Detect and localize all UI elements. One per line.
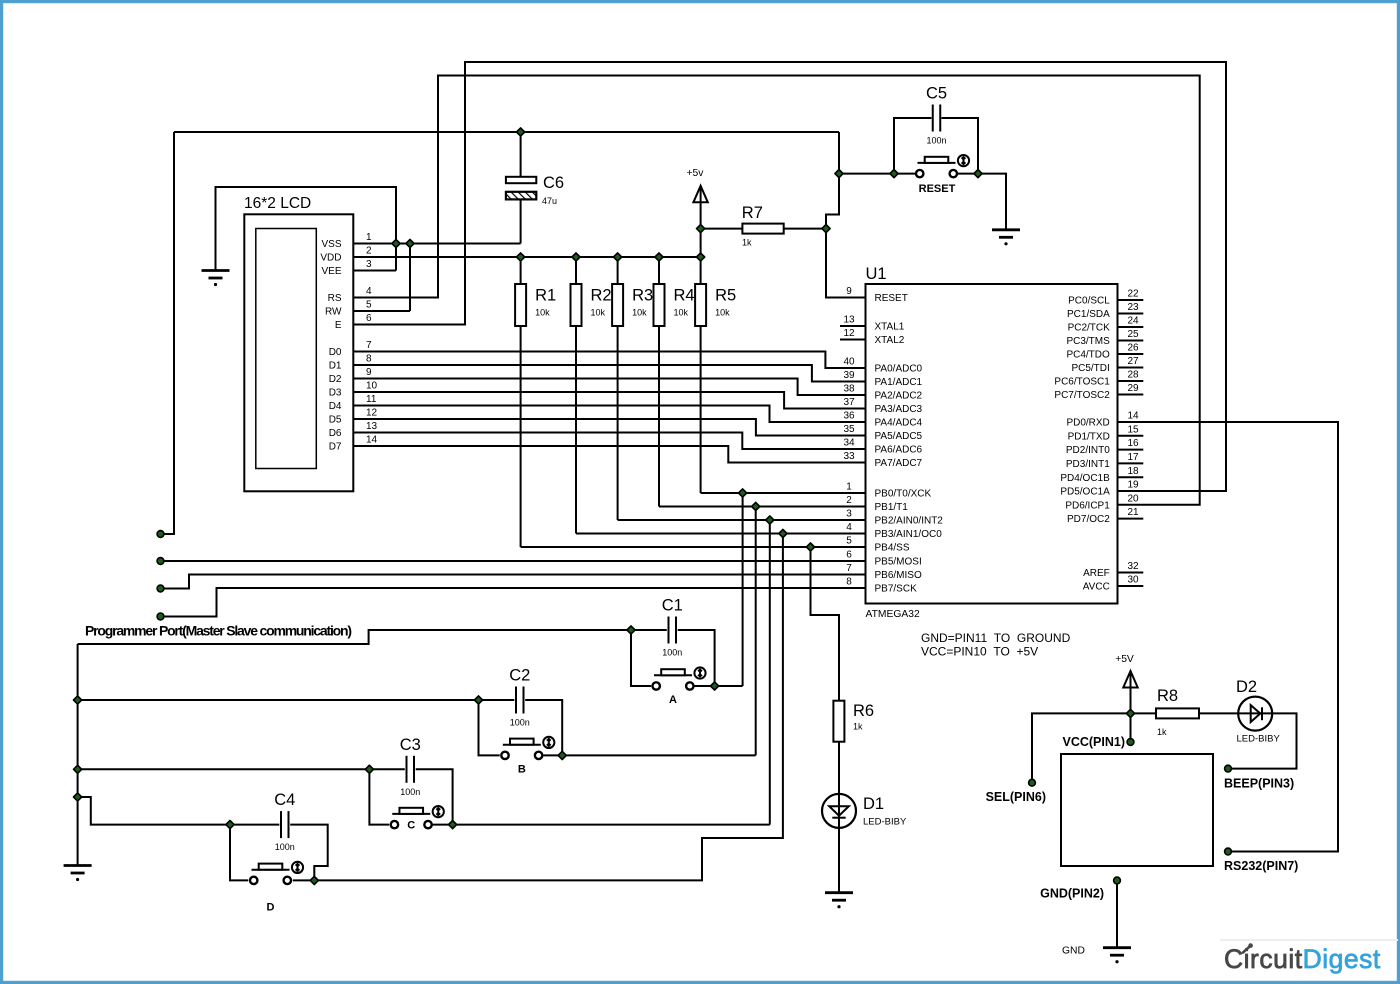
svg-text:PD7/OC2: PD7/OC2: [1067, 514, 1110, 525]
svg-text:3: 3: [846, 509, 852, 520]
svg-text:40: 40: [843, 357, 855, 368]
wire PC stub: [1118, 299, 1144, 301]
svg-text:2: 2: [846, 495, 852, 506]
wire D4 to PA4: [353, 406, 866, 423]
node RS232 PIN7 terminal: [1225, 848, 1232, 855]
node SEL PIN6 terminal: [1029, 779, 1036, 786]
wire +5V rail down to programmer port pin: [161, 132, 175, 534]
wire C1 net from ground bus: [78, 630, 631, 644]
wire R2 bottom to PB3: [575, 326, 577, 534]
wire C3 bottom branch: [369, 769, 389, 824]
svg-text:10k: 10k: [674, 308, 689, 318]
wire R4 top lead: [658, 257, 660, 284]
wire RW pin5: [353, 310, 411, 312]
push button D: [250, 877, 257, 884]
svg-text:22: 22: [1127, 289, 1139, 300]
wire PD stub: [1118, 462, 1144, 464]
svg-text:R6: R6: [853, 702, 874, 720]
svg-text:15: 15: [1127, 424, 1139, 435]
svg-text:7: 7: [366, 340, 372, 351]
svg-text:PC2/TCK: PC2/TCK: [1068, 323, 1111, 334]
wire SEL lead: [1032, 713, 1131, 782]
svg-text:PB5/MOSI: PB5/MOSI: [875, 557, 922, 568]
svg-text:D1: D1: [863, 795, 884, 813]
wire D2 to PA2: [353, 379, 866, 396]
wire PB0 to button A: [742, 493, 744, 686]
wire PC stub: [1118, 394, 1144, 396]
svg-text:PC0/SCL: PC0/SCL: [1068, 296, 1110, 307]
capacitor C4 100n: [281, 811, 289, 838]
push button C: [391, 821, 398, 828]
node programmer port SCK terminal: [157, 613, 164, 620]
svg-text:C6: C6: [543, 174, 564, 192]
svg-text:R5: R5: [715, 287, 736, 305]
resistor R8 1k: [1156, 708, 1199, 718]
svg-text:20: 20: [1127, 493, 1139, 504]
wire D0 to PA0: [353, 352, 866, 369]
svg-text:36: 36: [843, 411, 855, 422]
wire D5 to PA5: [353, 419, 866, 436]
ground below D1: [825, 893, 853, 909]
capacitor C3 100n: [407, 756, 415, 783]
wire R5 top lead: [700, 257, 702, 284]
wire C1 bottom branch: [631, 630, 651, 686]
svg-text:C3: C3: [400, 736, 421, 754]
svg-text:PD3/INT1: PD3/INT1: [1066, 459, 1110, 470]
svg-text:8: 8: [846, 577, 852, 588]
svg-text:17: 17: [1127, 452, 1139, 463]
LED D1 LED-BIBY: [822, 794, 856, 828]
svg-text:SEL(PIN6): SEL(PIN6): [986, 790, 1046, 804]
svg-text:R7: R7: [742, 204, 763, 222]
svg-text:R8: R8: [1157, 687, 1178, 705]
wire E to PD5 (pin6 LCD to pin19 U1): [353, 62, 1227, 491]
wire R3 bottom to PB2: [617, 326, 619, 520]
ground bus bottom left: [64, 866, 92, 882]
ground at reset button: [992, 230, 1020, 246]
svg-text:12: 12: [843, 328, 855, 339]
svg-text:33: 33: [843, 451, 855, 462]
svg-text:9: 9: [846, 286, 852, 297]
wire C2 top right: [525, 700, 562, 755]
wire D2 cathode stub: [1262, 712, 1272, 714]
node C5 left junction: [890, 170, 898, 178]
wire R7 right lead: [784, 228, 826, 230]
svg-text:34: 34: [843, 438, 855, 449]
capacitor C2 100n: [516, 687, 524, 714]
node ground bus C4: [74, 793, 82, 801]
svg-text:XTAL2: XTAL2: [875, 335, 905, 346]
resistor R7 1k: [742, 224, 783, 234]
svg-text:5: 5: [366, 300, 372, 311]
svg-text:38: 38: [843, 384, 855, 395]
wire C6 bottom lead: [520, 199, 522, 244]
wire C3 top right: [416, 769, 453, 824]
wire PB6 MISO: [161, 575, 866, 589]
svg-text:Programmer Port(Master Slave c: Programmer Port(Master Slave communicati…: [85, 623, 351, 639]
svg-text:1k: 1k: [853, 722, 863, 732]
node VDD rail R2: [572, 253, 580, 261]
wire R2 top lead: [575, 257, 577, 284]
wire PC stub: [1118, 340, 1144, 342]
svg-text:D: D: [267, 901, 275, 913]
svg-text:R4: R4: [674, 287, 695, 305]
node BEEP PIN3 terminal: [1225, 765, 1232, 772]
wire GND PIN2 lead: [1116, 881, 1118, 948]
svg-text:4: 4: [366, 286, 372, 297]
node +5V R8 junction: [1126, 709, 1134, 717]
svg-text:PB4/SS: PB4/SS: [875, 543, 910, 554]
svg-text:39: 39: [843, 370, 855, 381]
wire PB3 pin4: [576, 533, 866, 535]
svg-text:14: 14: [1127, 411, 1139, 422]
svg-text:12: 12: [366, 408, 378, 419]
wire PC stub: [1118, 326, 1144, 328]
svg-text:+5v: +5v: [687, 168, 705, 179]
svg-text:GND(PIN2): GND(PIN2): [1040, 887, 1104, 901]
svg-text:XTAL1: XTAL1: [875, 322, 905, 333]
svg-text:RS: RS: [328, 293, 342, 304]
wire C2 top left: [479, 699, 515, 701]
wire R8 left lead: [1131, 712, 1157, 714]
resistor R3 10k: [612, 284, 623, 326]
+5V power symbol bottom right: [1123, 671, 1137, 688]
resistor R2 10k: [571, 284, 582, 326]
wire AREF stub: [1118, 572, 1144, 574]
wire R6 to D1: [838, 742, 840, 795]
node PB2 junction: [766, 516, 774, 524]
node VDD rail R4: [655, 253, 663, 261]
svg-text:R3: R3: [632, 287, 653, 305]
wire button D right: [293, 879, 315, 881]
node C6 top junction: [517, 128, 525, 136]
svg-text:PA4/ADC4: PA4/ADC4: [875, 418, 923, 429]
wire PD stub: [1118, 435, 1144, 437]
svg-text:6: 6: [846, 550, 852, 561]
wire R3 top lead: [617, 257, 619, 284]
node reset rail junction: [835, 170, 843, 178]
wire C2 bottom branch: [479, 700, 500, 755]
wire PD stub: [1118, 518, 1144, 520]
wire AVCC stub: [1118, 585, 1144, 587]
node VSS-ground junction 1: [392, 239, 400, 247]
svg-text:D2: D2: [1236, 678, 1257, 696]
svg-text:PA2/ADC2: PA2/ADC2: [875, 391, 923, 402]
wire PD0 pin14 to RS232: [1118, 422, 1339, 852]
svg-text:10k: 10k: [715, 308, 730, 318]
svg-text:14: 14: [366, 435, 378, 446]
svg-text:100n: 100n: [662, 648, 682, 658]
wire PC stub: [1118, 367, 1144, 369]
svg-text:PA0/ADC0: PA0/ADC0: [875, 364, 923, 375]
svg-text:C1: C1: [662, 597, 683, 615]
svg-text:ATMEGA32: ATMEGA32: [866, 609, 920, 620]
svg-text:PC5/TDI: PC5/TDI: [1071, 363, 1109, 374]
node button A right junction: [711, 682, 719, 690]
node VDD rail R5: [697, 253, 705, 261]
svg-text:VCC(PIN1): VCC(PIN1): [1062, 735, 1125, 749]
wire C3 top left: [369, 768, 404, 770]
svg-text:PD2/INT0: PD2/INT0: [1066, 445, 1110, 456]
svg-text:5: 5: [846, 536, 852, 547]
svg-text:23: 23: [1127, 302, 1139, 313]
svg-text:GND=PIN11 TO GROUND: GND=PIN11 TO GROUND: [921, 631, 1071, 645]
svg-text:R2: R2: [591, 287, 612, 305]
svg-text:RS232(PIN7): RS232(PIN7): [1224, 859, 1298, 873]
svg-text:U1: U1: [866, 265, 887, 283]
svg-text:D3: D3: [329, 388, 342, 399]
wire button A right: [694, 685, 742, 687]
svg-text:VSS: VSS: [321, 239, 341, 250]
svg-text:RESET: RESET: [875, 293, 908, 304]
svg-text:100n: 100n: [400, 787, 420, 797]
svg-text:11: 11: [366, 394, 377, 405]
svg-text:16*2 LCD: 16*2 LCD: [244, 195, 311, 212]
wire PB4 pin5: [521, 546, 866, 548]
push button RESET: [916, 170, 923, 177]
node button C right junction: [449, 821, 457, 829]
node +5v / R7 junction: [697, 225, 705, 233]
svg-text:VEE: VEE: [321, 266, 341, 277]
svg-text:B: B: [518, 763, 526, 775]
svg-text:47u: 47u: [542, 196, 557, 206]
svg-text:13: 13: [843, 315, 855, 326]
svg-text:RESET: RESET: [919, 183, 956, 195]
svg-text:GND: GND: [1062, 946, 1085, 957]
svg-text:19: 19: [1127, 480, 1139, 491]
wire C1 top left: [631, 629, 667, 631]
wire button B right: [543, 754, 755, 756]
wire PB7 SCK: [161, 588, 866, 617]
wire D2 anode stub: [1238, 712, 1247, 714]
svg-text:PC4/TDO: PC4/TDO: [1066, 350, 1110, 361]
wire D3 to PA3: [353, 392, 866, 409]
wire R7 left lead: [701, 228, 743, 230]
svg-text:A: A: [669, 694, 677, 706]
wire ground bus vertical: [77, 644, 79, 866]
wire button C right: [433, 824, 770, 826]
svg-text:3: 3: [366, 259, 372, 270]
svg-text:PB6/MISO: PB6/MISO: [875, 570, 922, 581]
wire PB1 to button B: [755, 507, 757, 756]
wire PB3 to button D: [314, 534, 783, 881]
node PB1 junction: [752, 502, 760, 510]
wire R1 bottom to PB4: [520, 326, 522, 547]
svg-text:2: 2: [366, 246, 372, 257]
svg-text:PB7/SCK: PB7/SCK: [875, 584, 918, 595]
wire C1 top right: [678, 630, 715, 686]
svg-text:37: 37: [843, 397, 855, 408]
svg-text:D5: D5: [329, 415, 342, 426]
wire PB2 to button C: [769, 520, 771, 825]
svg-text:D1: D1: [329, 361, 342, 372]
resistor R4 10k: [654, 284, 665, 326]
svg-text:1: 1: [846, 482, 852, 493]
svg-text:PA3/ADC3: PA3/ADC3: [875, 404, 923, 415]
wire RESET pin9: [826, 229, 866, 298]
node VDD rail R1: [517, 253, 525, 261]
node ground bus C3: [74, 765, 82, 773]
svg-text:100n: 100n: [275, 842, 295, 852]
svg-text:PC3/TMS: PC3/TMS: [1066, 336, 1110, 347]
svg-text:LED-BIBY: LED-BIBY: [863, 817, 907, 828]
svg-text:24: 24: [1127, 316, 1139, 327]
wire reset row left: [839, 173, 915, 175]
svg-text:35: 35: [843, 424, 855, 435]
node VSS-ground junction 2: [406, 239, 414, 247]
wire D7 to PA7: [353, 446, 866, 463]
svg-text:4: 4: [846, 522, 852, 533]
svg-text:6: 6: [366, 313, 372, 324]
svg-text:E: E: [335, 320, 342, 331]
svg-text:C4: C4: [274, 791, 295, 809]
push button B: [501, 752, 508, 759]
node GND PIN2 terminal: [1114, 877, 1121, 884]
push button A: [653, 682, 660, 689]
CircuitDigest logo: [1220, 939, 1398, 941]
wire C5 right lead: [942, 118, 979, 174]
wire PB5 MOSI: [161, 560, 866, 562]
module box (SIM/beeper unit): [1061, 754, 1213, 866]
wire XTAL1 pin13 stub: [840, 325, 866, 327]
svg-text:VCC=PIN10 TO +5V: VCC=PIN10 TO +5V: [921, 645, 1038, 659]
wire reset row right to ground: [958, 174, 1006, 230]
capacitor C1 100n: [669, 617, 677, 644]
svg-text:10k: 10k: [632, 308, 647, 318]
svg-text:PA7/ADC7: PA7/ADC7: [875, 458, 923, 469]
wire reset net jog: [826, 132, 839, 229]
svg-text:C2: C2: [509, 667, 530, 685]
capacitor C6 47u polarized: [506, 177, 536, 183]
node programmer port +5V terminal: [157, 531, 164, 538]
svg-text:7: 7: [846, 563, 852, 574]
svg-text:LED-BIBY: LED-BIBY: [1237, 734, 1281, 745]
svg-text:32: 32: [1127, 561, 1139, 572]
wire R4 bottom to PB1: [658, 326, 660, 507]
wire D2 to BEEP: [1228, 713, 1297, 768]
svg-text:AVCC: AVCC: [1083, 582, 1110, 593]
wire PD stub: [1118, 449, 1144, 451]
svg-text:PC6/TOSC1: PC6/TOSC1: [1054, 377, 1110, 388]
svg-text:PD5/OC1A: PD5/OC1A: [1060, 487, 1110, 498]
node button B right junction: [558, 751, 566, 759]
node C5 right junction: [974, 170, 982, 178]
svg-text:PA1/ADC1: PA1/ADC1: [875, 377, 923, 388]
svg-text:D2: D2: [329, 374, 342, 385]
resistor R5 10k: [695, 284, 706, 326]
svg-text:PD4/OC1B: PD4/OC1B: [1060, 473, 1110, 484]
wire XTAL2 pin12 stub: [840, 339, 866, 341]
svg-text:25: 25: [1127, 329, 1139, 340]
svg-text:PB0/T0/XCK: PB0/T0/XCK: [875, 489, 932, 500]
wire C2 net: [78, 699, 479, 701]
+5v power symbol top: [693, 186, 707, 203]
wire PD stub: [1118, 476, 1144, 478]
svg-text:1k: 1k: [1157, 727, 1167, 737]
svg-text:18: 18: [1127, 466, 1139, 477]
node VDD rail R3: [614, 253, 622, 261]
wire ground riser at LCD: [216, 187, 397, 271]
svg-text:28: 28: [1127, 370, 1139, 381]
node PB4 junction: [806, 543, 814, 551]
resistor R6 1k: [833, 701, 844, 742]
svg-text:8: 8: [366, 354, 372, 365]
wire R1 top lead: [520, 257, 522, 284]
svg-text:1k: 1k: [742, 238, 752, 248]
node VCC PIN1 terminal: [1127, 739, 1134, 746]
node C2 left junction: [474, 696, 482, 704]
wire C4 top left: [230, 824, 279, 826]
svg-text:RW: RW: [325, 307, 342, 318]
svg-text:PB2/AIN0/INT2: PB2/AIN0/INT2: [875, 516, 944, 527]
node C1 left junction: [627, 626, 635, 634]
wire C5 left lead: [894, 118, 932, 174]
wire RS to PD6 (pin4 LCD to pin20 U1): [353, 76, 1200, 505]
wire PB2 pin3: [618, 519, 866, 521]
svg-text:VDD: VDD: [320, 253, 341, 264]
node PB3 junction: [779, 529, 787, 537]
wire VEE pin3 to ground: [353, 270, 397, 272]
wire VSS pin1: [353, 243, 521, 245]
svg-text:PA5/ADC5: PA5/ADC5: [875, 431, 923, 442]
svg-text:R1: R1: [535, 287, 556, 305]
svg-text:10k: 10k: [535, 308, 550, 318]
svg-text:29: 29: [1127, 383, 1139, 394]
wire D6 to PA6: [353, 433, 866, 450]
wire PB1 pin2: [659, 506, 866, 508]
wire PC stub: [1118, 313, 1144, 315]
resistor R1 10k: [515, 284, 526, 326]
wire R5 bottom to PB0: [700, 326, 702, 493]
svg-text:AREF: AREF: [1083, 568, 1110, 579]
node R7 / reset junction: [822, 225, 830, 233]
svg-text:27: 27: [1127, 356, 1139, 367]
wire RW to VSS: [409, 244, 411, 312]
svg-text:21: 21: [1127, 507, 1139, 518]
svg-text:13: 13: [366, 421, 378, 432]
wire C4 bottom branch: [230, 825, 248, 881]
svg-text:10k: 10k: [591, 308, 606, 318]
svg-text:BEEP(PIN3): BEEP(PIN3): [1224, 777, 1294, 791]
svg-text:16: 16: [1127, 438, 1139, 449]
wire PB0 pin1: [701, 492, 866, 494]
svg-text:C5: C5: [926, 85, 947, 103]
svg-text:D7: D7: [329, 442, 342, 453]
svg-text:100n: 100n: [926, 136, 946, 146]
svg-text:D0: D0: [329, 347, 342, 358]
node ground bus C2: [74, 696, 82, 704]
svg-text:100n: 100n: [510, 718, 530, 728]
wire +5v stem: [700, 188, 702, 257]
node C4 left junction: [226, 821, 234, 829]
wire D1 to ground: [838, 827, 840, 893]
ground GND PIN2: [1103, 948, 1131, 964]
wire R8 right lead: [1199, 712, 1238, 714]
wire C4 top right: [290, 825, 328, 881]
LED D2 LED-BIBY: [1238, 697, 1272, 731]
wire PB4 to R6: [811, 547, 840, 701]
wire D1 to PA1: [353, 365, 866, 382]
svg-text:PC1/SDA: PC1/SDA: [1067, 309, 1110, 320]
node PB0 junction: [739, 489, 747, 497]
wire PC stub: [1118, 353, 1144, 355]
wire +5V top rail: [174, 131, 839, 133]
svg-text:PD0/RXD: PD0/RXD: [1066, 418, 1109, 429]
svg-text:PB1/T1: PB1/T1: [875, 502, 909, 513]
node programmer port MOSI terminal: [157, 558, 164, 565]
node button D right junction: [310, 876, 318, 884]
svg-text:C: C: [407, 820, 415, 832]
